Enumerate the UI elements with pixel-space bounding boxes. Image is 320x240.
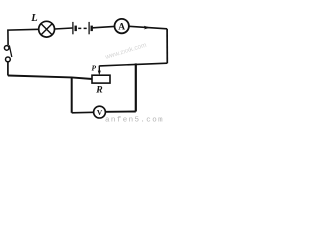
svg-text:P: P [92, 64, 97, 73]
wire: switch bottom terminal down to bottom-left corner [7, 62, 9, 76]
lamp L [39, 21, 55, 37]
wire: bottom main (switch corner to rheostat left terminal) [8, 76, 92, 80]
wire: switch top terminal up to top-left corner and right to lamp [8, 29, 39, 45]
wire: right branch vertical down [135, 63, 137, 111]
switch blade [9, 45, 12, 57]
svg-text:L: L [30, 13, 37, 24]
wire: ammeter to top-right corner [129, 26, 167, 29]
wire: to voltmeter left terminal [72, 111, 94, 114]
switch S (open): top terminal [4, 46, 9, 51]
battery cell 1 long plate [72, 22, 74, 34]
wire: voltmeter right terminal to right branch [106, 111, 136, 113]
wire: battery to ammeter [93, 26, 115, 27]
voltmeter V [94, 106, 106, 118]
switch bottom terminal [6, 57, 11, 62]
current direction arrow [144, 26, 151, 30]
svg-text:V: V [97, 108, 103, 117]
rheostat R body [92, 75, 110, 83]
wire: slider tap horizontal [99, 63, 167, 66]
svg-text:anfen5.com: anfen5.com [105, 117, 164, 124]
ammeter A [115, 19, 129, 33]
wire: lamp to battery [55, 28, 73, 29]
svg-text:A: A [118, 23, 125, 33]
battery dashed middle cells [78, 27, 87, 29]
wire: right vertical [166, 29, 168, 63]
battery cell 2 short plate [90, 26, 92, 32]
slider arrowhead P [98, 71, 101, 76]
battery cell 2 long plate [88, 22, 90, 34]
wire: slider vertical [98, 66, 100, 72]
wire: left branch vertical down to voltmeter [71, 77, 73, 112]
battery cell 1 short plate [74, 26, 76, 32]
svg-text:R: R [95, 84, 103, 95]
